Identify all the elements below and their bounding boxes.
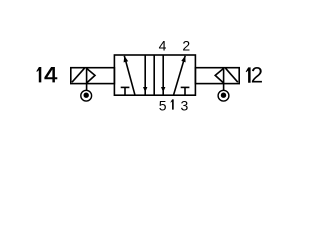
- svg-text:3: 3: [181, 97, 189, 113]
- svg-text:5: 5: [159, 97, 167, 113]
- svg-text:2: 2: [182, 37, 190, 53]
- svg-text:2: 2: [251, 63, 263, 88]
- svg-text:4: 4: [159, 37, 167, 53]
